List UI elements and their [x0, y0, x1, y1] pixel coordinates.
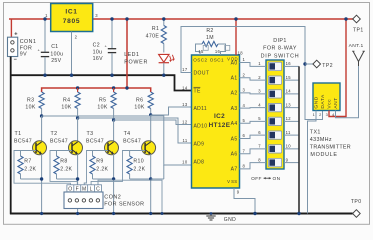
R8 label — [60, 159, 72, 173]
svg-text:7: 7 — [258, 144, 261, 149]
R5 label — [99, 97, 106, 103]
encoder IC2 HT12E box — [192, 55, 240, 188]
svg-text:10K: 10K — [134, 105, 144, 111]
svg-text:1M: 1M — [206, 35, 214, 41]
regulator IC1 7805 — [51, 4, 93, 32]
connector CON2 header — [64, 192, 103, 209]
svg-text:R1: R1 — [152, 26, 159, 32]
IC2 label TE — [194, 87, 202, 94]
IC1 pin1 number — [45, 13, 48, 18]
resistor R8 2.2K — [54, 151, 59, 180]
junction VDD rail — [234, 17, 237, 20]
CON1 label — [20, 39, 37, 57]
svg-text:11: 11 — [286, 130, 291, 135]
svg-text:AD10: AD10 — [194, 123, 208, 129]
ground symbol — [206, 214, 215, 221]
svg-text:V SS: V SS — [227, 179, 237, 184]
IC2 pin number 8 — [243, 164, 246, 169]
svg-text:FOR SENSOR: FOR SENSOR — [104, 201, 144, 207]
svg-text:10: 10 — [286, 144, 292, 149]
R4 label — [63, 97, 70, 103]
CON2 pin letter cells — [67, 185, 102, 192]
svg-text:5: 5 — [258, 116, 261, 121]
DIP1 switch 5 — [268, 117, 281, 125]
junction T2 ground — [76, 212, 79, 215]
IC2 pin number 7 — [243, 148, 246, 153]
IC2 label A1 — [231, 76, 238, 82]
IC1 pin3 number — [95, 13, 98, 18]
svg-text:25V: 25V — [51, 58, 61, 64]
svg-text:R6: R6 — [136, 97, 143, 103]
svg-text:CON1: CON1 — [20, 39, 37, 45]
OSC pin numbers — [198, 45, 229, 54]
svg-text:470E: 470E — [146, 34, 160, 40]
svg-text:R3: R3 — [27, 97, 34, 103]
wire TX Vcc red — [329, 19, 346, 117]
junction IC1 gnd — [70, 74, 73, 77]
testpoint TP1 — [353, 15, 361, 23]
TX1 pin label DATA — [320, 94, 326, 109]
junction Vcc rail — [344, 17, 347, 20]
LED1 label — [124, 52, 148, 65]
IC2 label AD9 — [194, 142, 205, 148]
junction sub-rail R5 — [112, 86, 115, 89]
svg-text:AD11: AD11 — [194, 106, 208, 112]
IC2 label A3 — [231, 106, 238, 112]
svg-text:3: 3 — [326, 112, 329, 117]
resistor R10 2.2K — [127, 151, 132, 180]
wire DOUT to TX data — [181, 27, 323, 120]
TX1 pin numbers — [313, 112, 336, 117]
wire collector T2 — [77, 118, 79, 142]
TP2 label — [322, 63, 333, 69]
IC2 label AD8 — [194, 160, 205, 166]
svg-text:A1: A1 — [231, 76, 238, 82]
svg-text:POWER: POWER — [124, 60, 148, 66]
svg-text:IC1: IC1 — [65, 8, 77, 15]
junction emitter T4 — [149, 177, 152, 180]
svg-text:5: 5 — [243, 118, 246, 123]
junction sub-rail R4 — [76, 86, 79, 89]
dip switch DIP1 body — [266, 60, 284, 169]
svg-text:9: 9 — [286, 157, 289, 162]
IC2 label AD11 — [194, 106, 208, 112]
wire OSC1 lead — [218, 44, 226, 55]
ANT.1 label — [349, 43, 364, 49]
svg-text:12: 12 — [182, 119, 188, 124]
wire OSC2 lead — [196, 44, 203, 55]
R4 value — [61, 105, 71, 111]
junction emitter T1 — [40, 177, 43, 180]
svg-text:TE: TE — [194, 89, 202, 95]
svg-text:18: 18 — [238, 50, 244, 55]
transistor T3 BC547 — [105, 141, 119, 155]
IC2 pin number 12 — [182, 119, 188, 124]
wire +9V rail (left of IC1) — [9, 18, 51, 20]
IC2 label A5 — [231, 136, 238, 142]
svg-text:O: O — [68, 186, 72, 192]
IC2 pin number 14 — [182, 85, 188, 90]
R6 label — [136, 97, 143, 103]
wire emitter bus T2 — [57, 154, 78, 214]
svg-text:TP0: TP0 — [351, 199, 362, 205]
wire IC1 pin2 to ground — [71, 32, 73, 76]
svg-text:C1: C1 — [51, 44, 58, 50]
DIP1 label — [261, 38, 300, 60]
svg-text:C2: C2 — [93, 43, 100, 49]
svg-text:ANT: ANT — [333, 97, 339, 108]
IC2 pin number 10 — [182, 160, 188, 165]
wire sensor M to T3 base — [84, 151, 92, 185]
svg-text:R9: R9 — [96, 159, 103, 165]
IC2 label AD10 — [194, 123, 208, 129]
junction R3 node — [40, 114, 43, 117]
svg-text:TRANSMITTER: TRANSMITTER — [310, 145, 351, 151]
wire DIP row 2 to common — [284, 79, 299, 81]
resistor R6 10K — [148, 92, 153, 115]
DIP pin number 9 — [286, 157, 289, 162]
svg-text:13: 13 — [182, 102, 188, 107]
wire sensor O to T1 base — [14, 151, 70, 185]
DIP pin number 12 — [286, 116, 292, 121]
svg-text:+: + — [105, 43, 108, 48]
wire base T4 — [130, 150, 146, 152]
junction sensor common ground — [161, 212, 164, 215]
svg-text:TP1: TP1 — [353, 27, 364, 33]
wire VDD to rail — [235, 19, 237, 55]
junction R5 node — [112, 118, 115, 121]
svg-text:OSC2: OSC2 — [193, 57, 207, 62]
DIP1 switch 3 — [268, 90, 281, 98]
wire DIP row 3 to common — [284, 93, 299, 95]
svg-text:FOR 8-WAY: FOR 8-WAY — [263, 46, 297, 52]
testpoint TP2 — [313, 60, 321, 68]
wire collector T3 — [113, 120, 115, 142]
svg-text:LED1: LED1 — [124, 52, 139, 58]
capacitor C1 — [38, 19, 50, 75]
svg-text:A3: A3 — [231, 106, 238, 112]
svg-text:OSC1: OSC1 — [210, 57, 224, 62]
svg-text:TX1: TX1 — [310, 130, 321, 136]
svg-text:2: 2 — [258, 75, 261, 80]
svg-text:1: 1 — [313, 112, 316, 117]
svg-text:6: 6 — [258, 130, 261, 135]
svg-text:FOR: FOR — [20, 45, 33, 51]
IC2 label DOUT — [194, 70, 210, 76]
T4 label — [123, 131, 141, 145]
wire emitter bus T4 — [130, 154, 151, 214]
wire TP2 stub — [305, 63, 313, 65]
svg-text:T4: T4 — [124, 131, 131, 137]
svg-text:2: 2 — [319, 112, 322, 117]
svg-text:16: 16 — [215, 49, 221, 54]
IC2 pin number 13 — [182, 102, 188, 107]
T3 label — [86, 131, 104, 145]
R5 value — [97, 105, 107, 111]
wire base T1 — [21, 150, 37, 152]
svg-text:A0: A0 — [231, 60, 238, 66]
svg-text:TP2: TP2 — [322, 63, 333, 69]
svg-text:R2: R2 — [206, 28, 213, 34]
svg-text:3: 3 — [95, 13, 98, 18]
junction TP2 tap — [303, 62, 306, 65]
DIP1 switch 8 — [268, 158, 281, 166]
resistor R7 2.2K — [18, 151, 23, 180]
wire ground mid rail — [11, 75, 192, 90]
wire A1 to DIP row 2 — [240, 78, 267, 80]
wire CON1 minus stub — [10, 57, 12, 63]
CON1 minus sign — [14, 57, 18, 63]
svg-text:8: 8 — [243, 164, 246, 169]
DIP pin number 6 — [258, 130, 261, 135]
junction R4 node — [76, 116, 79, 119]
DIP OFF-ON legend — [251, 176, 280, 182]
IC2 label A4 — [231, 121, 238, 127]
svg-text:9: 9 — [237, 190, 240, 195]
svg-text:8: 8 — [258, 157, 261, 162]
svg-text:R10: R10 — [133, 159, 144, 165]
DIP pin number 11 — [286, 130, 291, 135]
IC2 label A7 — [231, 167, 238, 173]
wire sensor F to T2 base — [50, 151, 77, 185]
svg-text:2.2K: 2.2K — [96, 166, 108, 172]
junction sub-rail drop — [125, 86, 128, 89]
wire DIP row 4 to common — [284, 107, 299, 109]
wire A0 to DIP row 1 — [240, 63, 267, 67]
wire AD9 net (R4 to pin11) — [78, 118, 192, 143]
junction C1 top — [43, 17, 46, 20]
junction 5V drop top — [125, 17, 128, 20]
R6 value — [134, 105, 144, 111]
DIP pin number 14 — [286, 89, 292, 94]
DIP pin number 16 — [286, 61, 292, 66]
svg-text:T2: T2 — [51, 131, 58, 137]
svg-text:−: − — [14, 57, 18, 63]
wire +5V rail (right of IC1) — [93, 18, 353, 20]
svg-text:DIP SWITCH: DIP SWITCH — [261, 54, 300, 60]
wire pullup sub-rail — [42, 88, 151, 92]
svg-text:4: 4 — [243, 103, 246, 108]
svg-text:BC547: BC547 — [86, 139, 104, 145]
GND label — [224, 217, 236, 223]
svg-text:15: 15 — [286, 75, 292, 80]
junction VSS ground — [253, 212, 256, 215]
svg-text:BC547: BC547 — [123, 139, 141, 145]
transistor T1 BC547 — [33, 141, 47, 155]
T2 label — [50, 131, 68, 145]
IC2 pin number 1 — [243, 57, 246, 62]
svg-text:IC2: IC2 — [214, 113, 225, 120]
TX1 pin label GND — [314, 96, 320, 108]
wire R5 top stub — [113, 88, 115, 92]
wire ground bottom rail — [10, 213, 353, 215]
TP1 label — [353, 27, 364, 33]
svg-text:2.2K: 2.2K — [24, 166, 36, 172]
IC2 name — [209, 113, 231, 129]
junction emitter T3 — [112, 177, 115, 180]
svg-text:2: 2 — [243, 72, 246, 77]
svg-text:T1: T1 — [15, 131, 22, 137]
wire DIP row 1 to common — [284, 65, 299, 67]
C1 label — [50, 44, 63, 64]
resistor R9 2.2K — [90, 151, 95, 180]
svg-text:14: 14 — [182, 85, 188, 90]
wire DIP row 8 to common — [284, 162, 299, 164]
svg-text:3: 3 — [258, 89, 261, 94]
wire collector T1 — [41, 116, 43, 142]
DIP pin number 10 — [286, 144, 292, 149]
R2 label — [206, 28, 214, 41]
DIP pin number 7 — [258, 144, 261, 149]
svg-text:1: 1 — [258, 61, 261, 66]
svg-text:6: 6 — [243, 133, 246, 138]
svg-text:2.2K: 2.2K — [60, 166, 72, 172]
R9 label — [96, 159, 108, 173]
svg-text:16V: 16V — [93, 56, 103, 62]
wire AD11 net (R6 to pin13) — [151, 107, 192, 115]
wire AD8 net (R3 to pin10) — [42, 116, 192, 179]
LED LED1 — [159, 54, 175, 75]
svg-text:1: 1 — [45, 13, 48, 18]
wire sensor C common to ground — [98, 180, 162, 213]
DIP pin number 13 — [286, 102, 292, 107]
DIP1 switch 1 — [268, 62, 281, 70]
T1 label — [14, 131, 32, 145]
svg-text:MODULE: MODULE — [310, 152, 337, 158]
svg-text:R8: R8 — [60, 159, 67, 165]
wire DIP row 6 to common — [284, 134, 299, 136]
wire CON1 plus to rail — [10, 19, 12, 37]
IC2 label OSC2 — [193, 57, 207, 62]
wire base T2 — [57, 150, 73, 152]
svg-text:AD8: AD8 — [194, 160, 205, 166]
IC2 pin number 17 — [182, 67, 188, 72]
DIP1 switch 4 — [268, 103, 281, 111]
svg-text:1: 1 — [243, 57, 246, 62]
svg-text:A4: A4 — [231, 121, 238, 127]
svg-text:L: L — [90, 186, 93, 192]
wire sensor L to T4 base — [91, 151, 130, 185]
wire TX GND to ground — [308, 111, 317, 214]
resistor R3 10K — [39, 92, 44, 116]
C2 label — [93, 43, 103, 63]
svg-text:R7: R7 — [24, 159, 31, 165]
antenna ANT.1 symbol — [352, 51, 365, 66]
wire AD10 net (R5 to pin12) — [114, 120, 192, 125]
wire A4 to DIP row 5 — [240, 121, 267, 123]
IC2 label OSC1 — [210, 57, 224, 62]
capacitor C2 — [105, 19, 117, 75]
svg-text:M: M — [82, 186, 87, 192]
svg-text:BC547: BC547 — [14, 139, 32, 145]
wire emitter bus T1 — [21, 154, 42, 214]
svg-text:DIP1: DIP1 — [273, 38, 287, 44]
wire collector T4 — [150, 115, 152, 142]
connector CON1 — [8, 37, 18, 56]
svg-text:9V: 9V — [20, 51, 27, 57]
svg-text:2.2K: 2.2K — [133, 166, 145, 172]
svg-text:433MHz: 433MHz — [310, 137, 332, 143]
IC2 pin number 18 — [238, 50, 244, 55]
junction C1 ground — [43, 74, 46, 77]
DIP1 switch 7 — [268, 145, 281, 153]
svg-text:T3: T3 — [87, 131, 94, 137]
DIP pin number 15 — [286, 75, 292, 80]
svg-text:AD9: AD9 — [194, 142, 205, 148]
junction R1 top — [162, 17, 165, 20]
CON2 pin letters — [68, 186, 100, 192]
IC2 pin number 3 — [243, 88, 246, 93]
junction T4 ground — [149, 212, 152, 215]
R3 label — [27, 97, 34, 103]
svg-text:12: 12 — [286, 116, 292, 121]
DIP pin number 4 — [258, 102, 261, 107]
wire ground left drop — [10, 57, 12, 215]
junction T1 ground — [40, 212, 43, 215]
TX1 label — [310, 130, 351, 158]
resistor R5 10K — [111, 92, 116, 120]
IC2 label VDD — [227, 56, 238, 61]
svg-text:3: 3 — [243, 88, 246, 93]
svg-text:10u: 10u — [93, 49, 103, 55]
DIP1 switch 6 — [268, 131, 281, 139]
wire emitter bus T3 — [93, 154, 114, 214]
wire A5 to DIP row 6 — [240, 135, 267, 138]
svg-text:10K: 10K — [61, 105, 71, 111]
transistor T2 BC547 — [69, 141, 83, 155]
CON1 plus sign — [14, 32, 18, 38]
DIP1 switch 2 — [268, 76, 281, 84]
svg-text:A5: A5 — [231, 136, 238, 142]
TX1 pin label ANT — [333, 97, 339, 108]
svg-text:A2: A2 — [231, 91, 238, 97]
IC1 pin2 number — [75, 35, 78, 40]
svg-text:7805: 7805 — [63, 18, 80, 25]
wire VSS to ground — [234, 188, 255, 214]
resistor R1 — [161, 19, 166, 53]
R1 label — [146, 26, 160, 39]
svg-text:R5: R5 — [99, 97, 106, 103]
wire DIP row 7 to common — [284, 148, 299, 150]
resistor R2 1M — [202, 41, 218, 46]
junction LED ground — [162, 74, 165, 77]
svg-text:A6: A6 — [231, 152, 238, 158]
IC2 pin number 11 — [182, 138, 187, 143]
svg-text:16: 16 — [286, 61, 292, 66]
wire +5V vertical drop — [126, 19, 128, 88]
DIP pin number 1 — [258, 61, 261, 66]
IC2 pin number 9 — [237, 190, 240, 195]
IC2 pin number 4 — [243, 103, 246, 108]
DIP pin number 5 — [258, 116, 261, 121]
svg-text:CON2: CON2 — [104, 194, 121, 200]
resistor R4 10K — [75, 92, 80, 118]
IC2 pin number 6 — [243, 133, 246, 138]
TP0 label — [351, 199, 362, 205]
DIP pin number 3 — [258, 89, 261, 94]
wire DIP row 5 to common — [284, 120, 299, 122]
wire A2 to DIP row 3 — [240, 92, 267, 95]
IC2 label VSS — [227, 179, 237, 184]
transistor T4 BC547 — [142, 141, 156, 155]
svg-text:R4: R4 — [63, 97, 70, 103]
DIP pin number 8 — [258, 157, 261, 162]
svg-text:10K: 10K — [25, 105, 35, 111]
svg-text:A7: A7 — [231, 167, 238, 173]
CON2 label — [104, 194, 144, 207]
svg-text:DOUT: DOUT — [194, 70, 210, 76]
svg-text:HT12E: HT12E — [209, 122, 231, 129]
